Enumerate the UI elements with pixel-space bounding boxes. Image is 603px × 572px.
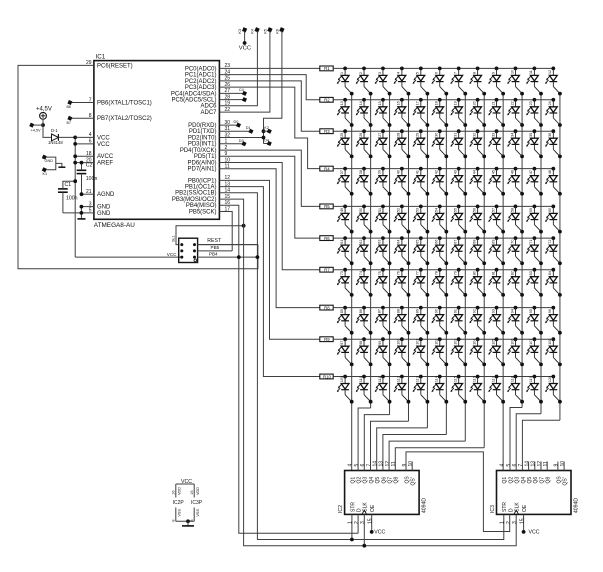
svg-text:64: 64: [397, 240, 401, 244]
svg-text:22: 22: [510, 101, 514, 105]
svg-text:Q1: Q1: [502, 477, 508, 484]
svg-text:12: 12: [548, 70, 552, 74]
svg-text:87: 87: [378, 309, 382, 313]
node VCC supply top: [243, 41, 247, 45]
svg-text:67: 67: [453, 240, 457, 244]
svg-text:Q6: Q6: [533, 477, 539, 484]
wire IC3 Q1 to bus 9: [503, 469, 505, 472]
wire IC3 Q4 to bus 12: [522, 420, 560, 470]
wire pin28 to pad: [219, 99, 243, 101]
svg-text:IC1: IC1: [96, 54, 106, 61]
connector K1 pad 2: [42, 168, 46, 172]
node MOSI loop: [242, 224, 246, 228]
svg-text:57: 57: [491, 208, 495, 212]
power pin IC2P VDD: [175, 484, 177, 498]
svg-text:IC3P: IC3P: [191, 500, 203, 506]
wire diode to VCC rail: [58, 136, 75, 138]
svg-text:Q5: Q5: [527, 477, 533, 484]
LED115: [450, 375, 467, 404]
svg-text:R5: R5: [324, 204, 330, 209]
LED6: [431, 67, 448, 96]
svg-text:VSS: VSS: [196, 509, 200, 517]
LED62: [356, 236, 373, 265]
LED18: [431, 98, 448, 127]
svg-text:42: 42: [435, 170, 439, 174]
svg-text:24: 24: [548, 101, 552, 105]
svg-text:41: 41: [416, 170, 420, 174]
svg-text:8: 8: [472, 72, 476, 74]
IC2 CLK marker: [362, 510, 367, 514]
wire row 8 line: [333, 307, 553, 309]
connector pad K4: [255, 28, 259, 32]
wire column bus 1: [351, 94, 353, 471]
LED72: [545, 236, 562, 265]
wire column bus 8: [483, 94, 485, 448]
diode D-1 1N4148: [52, 134, 59, 141]
wire REST pin: [198, 244, 258, 246]
svg-text:65: 65: [416, 240, 420, 244]
LED89: [413, 306, 430, 335]
svg-text:90: 90: [435, 309, 439, 313]
svg-text:86: 86: [359, 309, 363, 313]
svg-text:45: 45: [491, 170, 495, 174]
node VSS ground: [186, 519, 190, 523]
resistor R4: [320, 166, 333, 171]
svg-text:112: 112: [397, 376, 401, 382]
LED87: [375, 306, 392, 335]
wire R4 feed PC3: [219, 87, 319, 169]
svg-text:30: 30: [435, 133, 439, 137]
wire IC2 Q3 to bus 3: [364, 415, 389, 471]
LED49: [337, 205, 354, 234]
svg-text:VCC: VCC: [374, 529, 385, 535]
svg-text:R3: R3: [324, 129, 330, 134]
wire R3 feed PC2: [219, 81, 319, 131]
svg-text:102: 102: [435, 339, 439, 345]
svg-text:115: 115: [453, 376, 457, 382]
LED22: [507, 98, 524, 127]
svg-text:12: 12: [385, 461, 391, 467]
LED119: [526, 375, 543, 404]
wire IC2 Q7 to bus 7: [389, 441, 465, 470]
resistor R2: [320, 97, 333, 102]
svg-text:104: 104: [472, 339, 476, 345]
wire IC2 Q2 to bus 2: [358, 408, 371, 471]
svg-text:36: 36: [548, 133, 552, 137]
ground bar IC2P/IC3P: [182, 525, 194, 527]
svg-text:111: 111: [378, 376, 382, 382]
svg-text:74: 74: [359, 271, 363, 275]
svg-text:96: 96: [548, 309, 552, 313]
svg-text:108: 108: [548, 339, 552, 345]
svg-text:66: 66: [435, 240, 439, 244]
LED21: [488, 98, 505, 127]
svg-text:4: 4: [500, 464, 506, 467]
LED99: [375, 337, 392, 366]
LED47: [526, 167, 543, 196]
svg-text:44: 44: [472, 170, 476, 174]
svg-text:14: 14: [359, 101, 363, 105]
node diode/VCC: [73, 136, 77, 140]
supply symbol +4,5V circle: [40, 112, 47, 119]
svg-text:73: 73: [340, 271, 344, 275]
svg-text:C1: C1: [65, 182, 72, 188]
svg-text:PB4: PB4: [209, 252, 218, 257]
wire R6 feed PD5: [219, 156, 319, 238]
LED111: [375, 375, 392, 404]
svg-text:37: 37: [340, 170, 344, 174]
svg-text:72: 72: [548, 240, 552, 244]
LED67: [450, 236, 467, 265]
svg-text:K2: K2: [264, 126, 269, 130]
LED40: [394, 167, 411, 196]
LED91: [450, 306, 467, 335]
wire PB2 pin14 to STR rail: [219, 193, 503, 540]
svg-text:93: 93: [491, 309, 495, 313]
resistor R6: [320, 236, 333, 241]
wire GND pin5: [63, 212, 94, 214]
svg-text:35: 35: [529, 133, 533, 137]
svg-text:32: 32: [472, 133, 476, 137]
LED7: [450, 67, 467, 96]
svg-text:2: 2: [506, 521, 512, 524]
svg-text:D4: D4: [264, 139, 269, 143]
svg-text:11: 11: [543, 461, 549, 466]
svg-text:17: 17: [416, 101, 420, 105]
LED44: [469, 167, 486, 196]
wire IC2 Q5 to bus 5: [377, 428, 428, 471]
LED13: [337, 98, 354, 127]
svg-text:2: 2: [359, 72, 363, 74]
LED81: [488, 268, 505, 297]
LED71: [526, 236, 543, 265]
svg-text:33: 33: [491, 133, 495, 137]
svg-text:PB3(MOSI/OC2): PB3(MOSI/OC2): [172, 197, 217, 203]
svg-text:5: 5: [416, 72, 420, 74]
wire IC2 CLK to rail: [363, 514, 365, 545]
svg-text:4094D: 4094D: [422, 498, 428, 514]
svg-text:D: D: [508, 508, 514, 512]
svg-text:107: 107: [529, 339, 533, 345]
wire PB5 SCK pin17 to ISP: [219, 212, 232, 251]
LED16: [394, 98, 411, 127]
wire IC2 QS to IC3 D cascade: [406, 452, 510, 532]
svg-text:83: 83: [529, 271, 533, 275]
svg-text:71: 71: [529, 240, 533, 244]
LED117: [488, 375, 505, 404]
svg-text:PD6(AIN0): PD6(AIN0): [187, 160, 216, 166]
svg-text:1: 1: [348, 521, 354, 524]
node IC2 CLK: [362, 544, 366, 548]
svg-text:PD0(RXD): PD0(RXD): [188, 123, 216, 129]
svg-text:3: 3: [360, 521, 366, 524]
svg-text:Q4: Q4: [521, 477, 527, 484]
svg-text:94: 94: [510, 309, 514, 313]
svg-text:CLK: CLK: [363, 502, 369, 512]
LED17: [413, 98, 430, 127]
wire column bus 4: [407, 94, 409, 422]
wire IC2 QS2 stub: [411, 462, 413, 471]
svg-text:C2: C2: [86, 163, 93, 169]
svg-text:10: 10: [560, 461, 566, 467]
LED36: [545, 129, 562, 158]
capacitor C2: [77, 169, 87, 171]
svg-text:K3: K3: [238, 29, 242, 34]
ground bar below GND pins: [77, 218, 85, 220]
connector pad B6 on pin7: [68, 101, 72, 105]
svg-text:7: 7: [366, 464, 372, 467]
wire C1 bottom: [62, 192, 64, 213]
LED14: [356, 98, 373, 127]
wire IC2 STR to rail: [351, 514, 353, 539]
LED75: [375, 268, 392, 297]
svg-text:18: 18: [435, 101, 439, 105]
svg-text:85: 85: [340, 309, 344, 313]
LED20: [469, 98, 486, 127]
LED120: [545, 375, 562, 404]
svg-text:9: 9: [402, 464, 408, 467]
wire C2 top: [81, 163, 83, 171]
LED76: [394, 268, 411, 297]
svg-text:15: 15: [519, 518, 525, 524]
LED57: [488, 205, 505, 234]
svg-text:51: 51: [378, 208, 382, 212]
svg-text:14: 14: [373, 461, 379, 467]
svg-text:6: 6: [435, 72, 439, 74]
svg-text:26: 26: [359, 133, 363, 137]
LED69: [488, 236, 505, 265]
svg-text:+4,5V: +4,5V: [36, 107, 52, 113]
svg-text:16: 16: [172, 491, 176, 495]
wire pad K6 to K2 cluster: [264, 31, 282, 143]
svg-text:GND: GND: [97, 211, 111, 217]
svg-text:PB0(ICP1): PB0(ICP1): [188, 178, 217, 184]
svg-text:110: 110: [359, 376, 363, 382]
svg-text:80: 80: [472, 271, 476, 275]
wire IC3 Q3 to bus 11: [516, 414, 541, 471]
svg-text:101: 101: [416, 339, 420, 345]
resistor R10: [320, 374, 333, 379]
svg-text:63: 63: [378, 240, 382, 244]
LED65: [413, 236, 430, 265]
svg-text:PD3(INT1): PD3(INT1): [188, 142, 217, 148]
resistor R5: [320, 204, 333, 209]
LED113: [413, 375, 430, 404]
svg-text:PD2(INT0): PD2(INT0): [188, 135, 217, 141]
svg-text:59: 59: [529, 208, 533, 212]
resistor R8: [320, 305, 333, 310]
wire column bus 3: [389, 94, 391, 415]
svg-text:19: 19: [453, 101, 457, 105]
svg-text:28: 28: [397, 133, 401, 137]
LED83: [526, 268, 543, 297]
svg-text:Q3: Q3: [515, 477, 521, 484]
LED35: [526, 129, 543, 158]
svg-text:11: 11: [529, 70, 533, 74]
wire R2 feed PC1: [219, 75, 319, 100]
svg-text:68: 68: [472, 240, 476, 244]
wire column bus 7: [464, 94, 466, 442]
resistor R3: [320, 129, 333, 134]
connector pad B7 on pin8: [68, 116, 72, 120]
svg-text:120: 120: [548, 376, 552, 382]
wire VCC pin6: [75, 143, 94, 145]
resistor R1: [320, 66, 333, 71]
svg-text:25: 25: [340, 133, 344, 137]
power pin IC3P VDD: [193, 484, 195, 498]
svg-text:ATMEGA8-AU: ATMEGA8-AU: [94, 222, 135, 229]
svg-text:20: 20: [472, 101, 476, 105]
wire R9 feed PB0: [219, 180, 319, 339]
LED78: [431, 268, 448, 297]
LED27: [375, 129, 392, 158]
wire supply to node: [42, 119, 44, 125]
LED23: [526, 98, 543, 127]
svg-text:PB2(SS/OC1B): PB2(SS/OC1B): [175, 191, 216, 197]
svg-text:VCC: VCC: [97, 135, 110, 141]
wire IC3 Q2 to bus 10: [510, 408, 522, 471]
SL1 pin1 marker: [194, 259, 197, 262]
svg-text:PD7(AIN1): PD7(AIN1): [187, 167, 216, 173]
svg-text:15: 15: [378, 101, 382, 105]
node VCC IC3 OE: [522, 530, 526, 534]
svg-text:69: 69: [491, 240, 495, 244]
ground bar K1: [58, 166, 65, 168]
svg-text:PD5(T1): PD5(T1): [194, 154, 217, 160]
LED104: [469, 337, 486, 366]
svg-text:CLK: CLK: [515, 502, 521, 512]
svg-text:QS: QS: [556, 476, 562, 484]
node K2 cluster upper: [262, 129, 266, 133]
svg-text:VSS: VSS: [178, 509, 182, 517]
IC3 CLK marker: [514, 510, 519, 514]
LED77: [413, 268, 430, 297]
svg-text:38: 38: [359, 170, 363, 174]
svg-text:6: 6: [512, 464, 518, 467]
wire AVCC pin18: [75, 155, 94, 157]
svg-text:52: 52: [397, 208, 401, 212]
svg-text:7: 7: [518, 464, 524, 467]
node VCC IC2 OE: [370, 530, 374, 534]
svg-text:VCC: VCC: [239, 46, 251, 52]
wire row 10 line: [333, 376, 553, 378]
svg-text:PC5(ADC5/SCL): PC5(ADC5/SCL): [171, 98, 216, 104]
wire IC2 D to rail: [357, 514, 359, 533]
svg-text:105: 105: [491, 339, 495, 345]
wire column bus 6: [445, 94, 447, 435]
svg-text:114: 114: [435, 376, 439, 382]
wire AGND pin21: [82, 193, 94, 195]
connector pad C4 b: [243, 98, 247, 102]
svg-text:14: 14: [524, 461, 530, 467]
svg-text:79: 79: [453, 271, 457, 275]
svg-text:VDD: VDD: [178, 487, 182, 495]
svg-text:61: 61: [340, 240, 344, 244]
svg-text:40: 40: [397, 170, 401, 174]
wire IC3 QS stub: [557, 462, 559, 471]
wire K1 to ground: [56, 163, 62, 167]
svg-text:58: 58: [510, 208, 514, 212]
wire row 3 line: [333, 130, 553, 132]
svg-text:27: 27: [378, 133, 382, 137]
wire IC3 OE to VCC: [523, 514, 525, 532]
svg-text:IC2: IC2: [338, 505, 344, 513]
LED31: [450, 129, 467, 158]
LED55: [450, 205, 467, 234]
LED79: [450, 268, 467, 297]
svg-text:K5: K5: [264, 29, 268, 34]
LED96: [545, 306, 562, 335]
LED29: [413, 129, 430, 158]
wire IC3 Q8 stub: [546, 462, 548, 471]
svg-text:31: 31: [453, 133, 457, 137]
svg-text:QS': QS': [563, 477, 569, 485]
LED28: [394, 129, 411, 158]
svg-text:5: 5: [354, 464, 360, 467]
svg-text:D-1: D-1: [51, 128, 58, 133]
LED1: [337, 67, 354, 96]
svg-text:54: 54: [435, 208, 439, 212]
svg-text:118: 118: [510, 376, 514, 382]
svg-text:PC1(ADC1): PC1(ADC1): [185, 73, 217, 79]
LED85: [337, 306, 354, 335]
svg-text:Q2: Q2: [508, 477, 514, 484]
LED24: [545, 98, 562, 127]
wire IC2 Q8 to bus 8: [395, 448, 484, 471]
svg-text:77: 77: [416, 271, 420, 275]
svg-text:STR: STR: [502, 502, 508, 512]
svg-text:8: 8: [172, 520, 176, 522]
svg-text:Q8: Q8: [546, 477, 552, 484]
connector pad D3: [242, 142, 246, 146]
SL1 pin row 1: [180, 243, 183, 246]
svg-text:70: 70: [510, 240, 514, 244]
shift register IC3 4094D body: [497, 471, 572, 515]
svg-text:SL1: SL1: [172, 235, 176, 242]
svg-text:5: 5: [506, 464, 512, 467]
LED46: [507, 167, 524, 196]
wire R7 feed PD6: [219, 163, 319, 270]
svg-text:IC2P: IC2P: [173, 500, 185, 506]
wire PB3 MOSI pin15 to CLK rail: [219, 199, 516, 546]
svg-text:PD1(TXD): PD1(TXD): [189, 129, 217, 135]
LED102: [431, 337, 448, 366]
LED63: [375, 236, 392, 265]
LED33: [488, 129, 505, 158]
LED114: [431, 375, 448, 404]
power pin IC2P VSS: [175, 508, 177, 522]
svg-text:47: 47: [529, 170, 533, 174]
LED30: [431, 129, 448, 158]
LED37: [337, 167, 354, 196]
connector pad D0: [237, 123, 241, 127]
LED110: [356, 375, 373, 404]
svg-text:50: 50: [359, 208, 363, 212]
wire PB4 pin: [198, 256, 258, 258]
LED70: [507, 236, 524, 265]
wire column bus 12: [559, 94, 561, 421]
svg-text:D0: D0: [234, 120, 239, 124]
svg-text:16: 16: [397, 101, 401, 105]
svg-text:R4: R4: [324, 166, 330, 171]
LED51: [375, 205, 392, 234]
wire IC3 QS2 stub: [563, 462, 565, 471]
LED116: [469, 375, 486, 404]
connector pad D1: [249, 129, 253, 133]
LED3: [375, 67, 392, 96]
connector pad +4,5V: [30, 123, 34, 127]
wire R1 feed PC0: [219, 67, 319, 69]
